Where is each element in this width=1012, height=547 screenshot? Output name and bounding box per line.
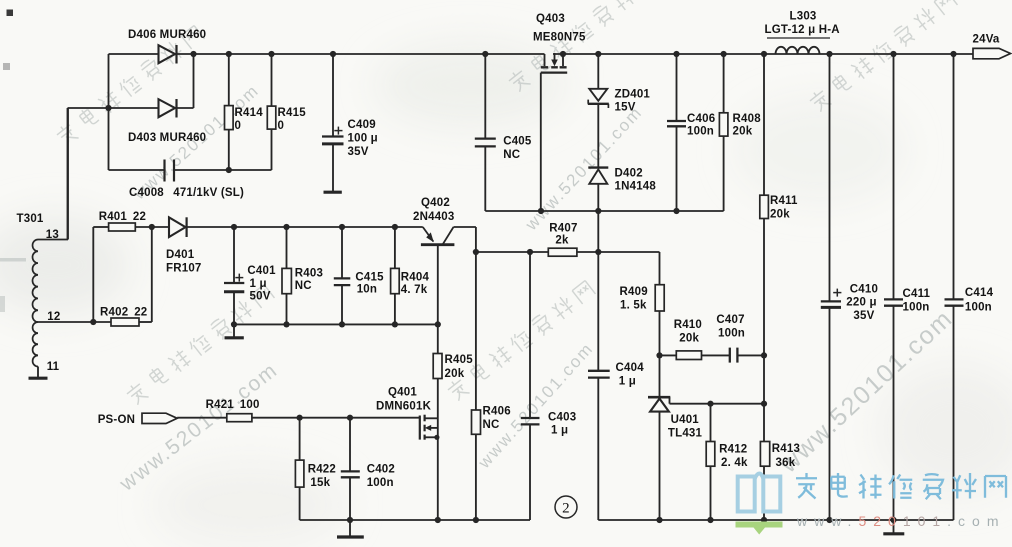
- svg-text:R413: R413: [772, 443, 800, 455]
- svg-text:D406 MUR460: D406 MUR460: [128, 29, 206, 41]
- svg-text:ME80N75: ME80N75: [533, 32, 586, 44]
- svg-text:R415: R415: [278, 107, 307, 119]
- svg-text:C410: C410: [850, 284, 878, 296]
- svg-text:100n: 100n: [965, 302, 992, 314]
- svg-text:C407: C407: [716, 314, 744, 326]
- svg-text:C409: C409: [348, 119, 376, 131]
- svg-text:Q402: Q402: [421, 197, 450, 209]
- svg-text:10n: 10n: [357, 284, 377, 296]
- svg-text:C4008 471/1kV (SL): C4008 471/1kV (SL): [129, 187, 244, 199]
- svg-text:2N4403: 2N4403: [413, 211, 454, 223]
- svg-text:1 μ: 1 μ: [250, 278, 267, 290]
- svg-text:TL431: TL431: [668, 428, 703, 440]
- svg-text:D402: D402: [615, 168, 643, 180]
- svg-text:15V: 15V: [615, 102, 636, 114]
- svg-text:R406: R406: [483, 406, 511, 418]
- svg-text:NC: NC: [503, 149, 520, 161]
- svg-text:R404: R404: [401, 272, 430, 284]
- svg-text:2: 2: [562, 501, 570, 517]
- svg-text:C402: C402: [367, 464, 395, 476]
- svg-text:R402 22: R402 22: [100, 307, 147, 319]
- svg-text:1 μ: 1 μ: [551, 425, 568, 437]
- svg-text:C405: C405: [503, 136, 532, 148]
- svg-text:20k: 20k: [679, 333, 699, 345]
- svg-text:C415: C415: [355, 272, 384, 284]
- svg-text:D401: D401: [166, 249, 195, 261]
- svg-text:100n: 100n: [718, 328, 745, 340]
- svg-text:R409: R409: [620, 286, 648, 298]
- svg-text:C401: C401: [247, 265, 276, 277]
- svg-text:1 μ: 1 μ: [619, 376, 636, 388]
- svg-text:T301: T301: [17, 213, 44, 225]
- svg-text:PS-ON: PS-ON: [98, 414, 135, 426]
- svg-text:100n: 100n: [903, 302, 930, 314]
- svg-text:4. 7k: 4. 7k: [401, 284, 428, 296]
- svg-text:C404: C404: [616, 362, 645, 374]
- svg-text:NC: NC: [483, 419, 500, 431]
- svg-text:24Va: 24Va: [973, 34, 1000, 46]
- svg-text:1N4148: 1N4148: [615, 181, 657, 193]
- svg-text:12: 12: [47, 311, 60, 323]
- svg-text:50V: 50V: [250, 291, 271, 303]
- svg-text:R412: R412: [719, 444, 747, 456]
- svg-text:R405: R405: [445, 354, 474, 366]
- svg-text:R422: R422: [308, 464, 336, 476]
- svg-text:15k: 15k: [310, 477, 330, 489]
- svg-text:R403: R403: [295, 268, 323, 280]
- svg-text:1. 5k: 1. 5k: [620, 300, 647, 312]
- svg-text:Q403: Q403: [536, 13, 565, 25]
- svg-text:36k: 36k: [776, 457, 796, 469]
- svg-text:C406: C406: [687, 113, 715, 125]
- svg-text:0: 0: [278, 120, 285, 132]
- svg-text:R411: R411: [770, 195, 798, 207]
- svg-text:2. 4k: 2. 4k: [721, 457, 748, 469]
- svg-text:100 μ: 100 μ: [348, 133, 378, 145]
- svg-text:220 μ: 220 μ: [846, 297, 876, 309]
- svg-text:35V: 35V: [853, 310, 874, 322]
- svg-text:R407: R407: [549, 223, 577, 235]
- svg-text:C411: C411: [903, 288, 931, 300]
- svg-text:ZD401: ZD401: [615, 89, 651, 101]
- svg-text:U401: U401: [671, 414, 700, 426]
- svg-text:www.520101.com: www.520101.com: [796, 513, 1006, 529]
- svg-text:Q401: Q401: [388, 387, 417, 399]
- svg-text:R421 100: R421 100: [206, 399, 260, 411]
- svg-text:R401 22: R401 22: [99, 211, 146, 223]
- svg-text:20k: 20k: [445, 368, 465, 380]
- svg-text:R408: R408: [733, 113, 762, 125]
- svg-text:FR107: FR107: [166, 263, 202, 275]
- svg-text:100n: 100n: [687, 126, 714, 138]
- svg-text:35V: 35V: [348, 146, 369, 158]
- svg-text:2k: 2k: [555, 235, 569, 247]
- svg-text:20k: 20k: [733, 126, 753, 138]
- svg-text:C403: C403: [548, 412, 576, 424]
- svg-text:DMN601K: DMN601K: [376, 401, 432, 413]
- svg-text:C414: C414: [965, 287, 994, 299]
- svg-text:R410: R410: [674, 319, 702, 331]
- svg-text:100n: 100n: [367, 477, 394, 489]
- svg-text:20k: 20k: [770, 209, 790, 221]
- svg-text:R414: R414: [235, 107, 264, 119]
- svg-text:D403 MUR460: D403 MUR460: [128, 132, 206, 144]
- svg-text:LGT-12 μ H-A: LGT-12 μ H-A: [765, 24, 840, 36]
- svg-text:NC: NC: [295, 280, 312, 292]
- svg-text:0: 0: [235, 120, 242, 132]
- svg-text:13: 13: [46, 229, 59, 241]
- svg-text:11: 11: [47, 361, 60, 373]
- svg-text:L303: L303: [790, 11, 817, 23]
